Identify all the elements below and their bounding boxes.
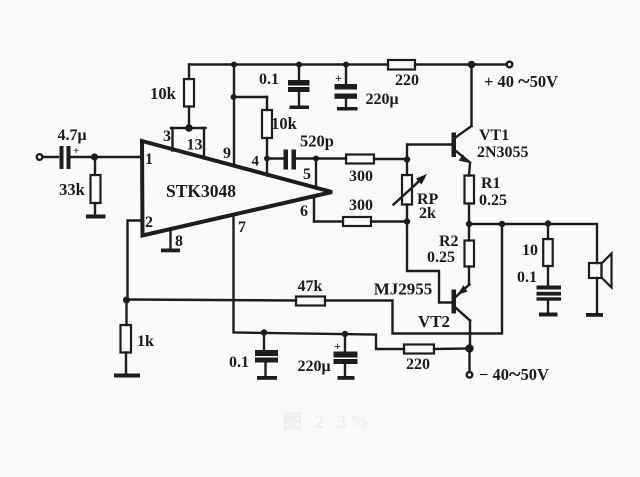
wire top rail right: [415, 63, 507, 65]
pin 3 stub: [171, 128, 173, 151]
ground 1k: [114, 374, 140, 378]
wire node to 47k: [128, 300, 297, 301]
svg-text:2N3055: 2N3055: [477, 144, 529, 161]
wire VT2 collector: [469, 321, 471, 349]
wire speaker to ground: [596, 278, 598, 314]
ground zobel: [539, 313, 558, 317]
svg-text:VT2: VT2: [418, 312, 450, 331]
resistor R1 0.25: [465, 176, 475, 204]
wire C1 to pin1: [71, 156, 142, 158]
wire pin 9: [233, 65, 235, 167]
svg-text:+: +: [73, 145, 79, 157]
ground speaker: [586, 313, 603, 317]
svg-text:13: 13: [187, 137, 203, 154]
svg-text:4: 4: [252, 154, 260, 170]
svg-text:7: 7: [238, 219, 246, 236]
terminal +40-50V: [507, 62, 513, 68]
svg-text:4.7μ: 4.7μ: [57, 127, 86, 144]
potentiometer RP 2k: [402, 160, 412, 222]
svg-text:520p: 520p: [300, 132, 334, 151]
node rail 220u: [343, 62, 349, 68]
svg-text:0.1: 0.1: [229, 354, 249, 371]
speaker BL: [589, 254, 612, 288]
wire pin4 to C 520p: [267, 157, 284, 159]
wire pin 7: [234, 215, 405, 350]
node branch 10k right: [231, 94, 237, 100]
pin 5 stub: [315, 159, 317, 189]
transistor VT1 2N3055: [452, 126, 472, 163]
node pin 4: [264, 156, 270, 162]
svg-text:1: 1: [145, 151, 153, 168]
svg-text:220μ: 220μ: [297, 358, 330, 375]
svg-text:220: 220: [395, 72, 419, 89]
transistor VT2 MJ2955: [452, 285, 471, 321]
svg-text:5: 5: [303, 166, 311, 183]
wire 300b to node: [371, 220, 407, 222]
resistor 220 top: [388, 60, 415, 70]
svg-text:6: 6: [300, 203, 308, 220]
wire 220 bottom to node: [434, 347, 470, 350]
RP wiper arrow: [394, 174, 428, 205]
capacitor 520p: [284, 150, 297, 170]
resistor 300 upper: [346, 155, 374, 164]
capacitor 220u bottom: [334, 334, 358, 377]
svg-text:STK3048: STK3048: [166, 181, 236, 201]
wire output line: [469, 224, 597, 263]
pin 4 stub: [266, 159, 268, 176]
node pin2 bottom: [123, 297, 130, 304]
svg-text:300: 300: [349, 168, 373, 185]
resistor 47k: [296, 297, 325, 306]
pin 13 stub: [203, 128, 205, 159]
svg-text:R1: R1: [481, 175, 501, 192]
svg-text:10: 10: [522, 242, 538, 259]
wire R1 to output node: [468, 204, 470, 225]
pin 6 stub: [313, 196, 315, 222]
node input: [91, 153, 98, 160]
svg-text:0.1: 0.1: [517, 269, 537, 286]
capacitor 220u top: [335, 65, 358, 108]
svg-text:10k: 10k: [271, 114, 298, 133]
node pin 5: [313, 156, 319, 162]
svg-text:220μ: 220μ: [365, 91, 398, 108]
resistor R 33k: [91, 157, 101, 215]
node rail VT1: [468, 61, 476, 69]
capacitor C1 4.7u: [60, 146, 71, 169]
svg-text:图 2 3%: 图 2 3%: [283, 411, 374, 433]
node -V junction: [465, 344, 473, 352]
node zobel tap: [545, 220, 551, 226]
wire to -V terminal: [468, 349, 470, 372]
svg-text:VT1: VT1: [479, 127, 509, 144]
wire pin5 to 300a: [316, 157, 346, 159]
svg-text:2k: 2k: [419, 205, 436, 222]
wire RP node to VT2 base: [407, 222, 452, 303]
svg-text:MJ2955: MJ2955: [374, 280, 433, 299]
svg-text:8: 8: [175, 233, 183, 250]
resistor 10k left: [184, 65, 194, 129]
node 0.1 bottom: [261, 329, 267, 335]
op-amp U1 STK3048: [142, 141, 332, 236]
node rail 0.1: [296, 62, 302, 68]
ground 0.1 bottom: [257, 376, 277, 380]
svg-text:1k: 1k: [137, 333, 154, 350]
wire top rail left: [189, 63, 388, 65]
svg-text:+: +: [335, 71, 342, 85]
wire pin 2: [128, 221, 143, 301]
wire VT1 collector: [470, 65, 472, 127]
svg-text:3: 3: [163, 128, 171, 145]
pin 8 stub: [169, 229, 171, 250]
svg-text:+ 40 ~50V: + 40 ~50V: [484, 68, 558, 93]
resistor 300 lower: [343, 217, 371, 226]
wire 300a to node: [374, 158, 407, 160]
wire zobel cap to ground: [547, 300, 549, 313]
node pins 3-13: [185, 124, 193, 132]
node feedback tap: [499, 221, 505, 227]
ground 220u bottom: [338, 376, 355, 380]
svg-text:10k: 10k: [150, 84, 177, 103]
node output junction: [466, 221, 472, 227]
resistor R2 0.25: [465, 224, 475, 285]
svg-text:33k: 33k: [59, 180, 86, 199]
svg-text:9: 9: [223, 145, 231, 162]
wire input to C1: [43, 156, 58, 158]
terminal -40-50V: [467, 372, 473, 378]
capacitor 0.1 top: [288, 65, 310, 107]
wire VT1 emitter: [469, 163, 470, 176]
svg-text:47k: 47k: [298, 278, 323, 295]
resistor 10k right: [262, 97, 272, 159]
node RP bottom: [404, 218, 410, 224]
ground pin 8: [161, 249, 180, 253]
node VT1 base branch: [404, 156, 410, 162]
svg-text:220: 220: [406, 356, 430, 373]
ground 220u top: [337, 107, 358, 111]
resistor 10 zobel: [543, 224, 553, 287]
wire bracket 3-13: [171, 127, 206, 129]
input terminal: [37, 154, 43, 160]
wire branch to 10k right: [234, 96, 267, 98]
svg-text:0.25: 0.25: [479, 192, 507, 209]
ground 33k: [86, 215, 106, 219]
wire 520p to pin5: [296, 157, 316, 159]
wire pin6 to 300b: [314, 220, 343, 222]
ground 0.1 top: [290, 106, 310, 110]
svg-text:300: 300: [349, 197, 373, 214]
svg-text:+: +: [334, 339, 341, 353]
svg-text:R2: R2: [439, 233, 459, 250]
node 220u bottom: [342, 331, 348, 337]
svg-text:0.1: 0.1: [259, 71, 279, 88]
capacitor 0.1 bottom: [255, 333, 278, 377]
node rail pin9: [231, 62, 237, 68]
resistor 220 bottom: [404, 345, 434, 354]
resistor 1k: [121, 300, 132, 374]
svg-text:2: 2: [145, 214, 153, 231]
wire 47k to feedback: [325, 224, 502, 334]
svg-text:0.25: 0.25: [427, 249, 455, 266]
capacitor 0.1 zobel: [537, 286, 562, 301]
wire riser to VT1 base: [407, 145, 452, 160]
svg-text:− 40~50V: − 40~50V: [479, 361, 549, 386]
